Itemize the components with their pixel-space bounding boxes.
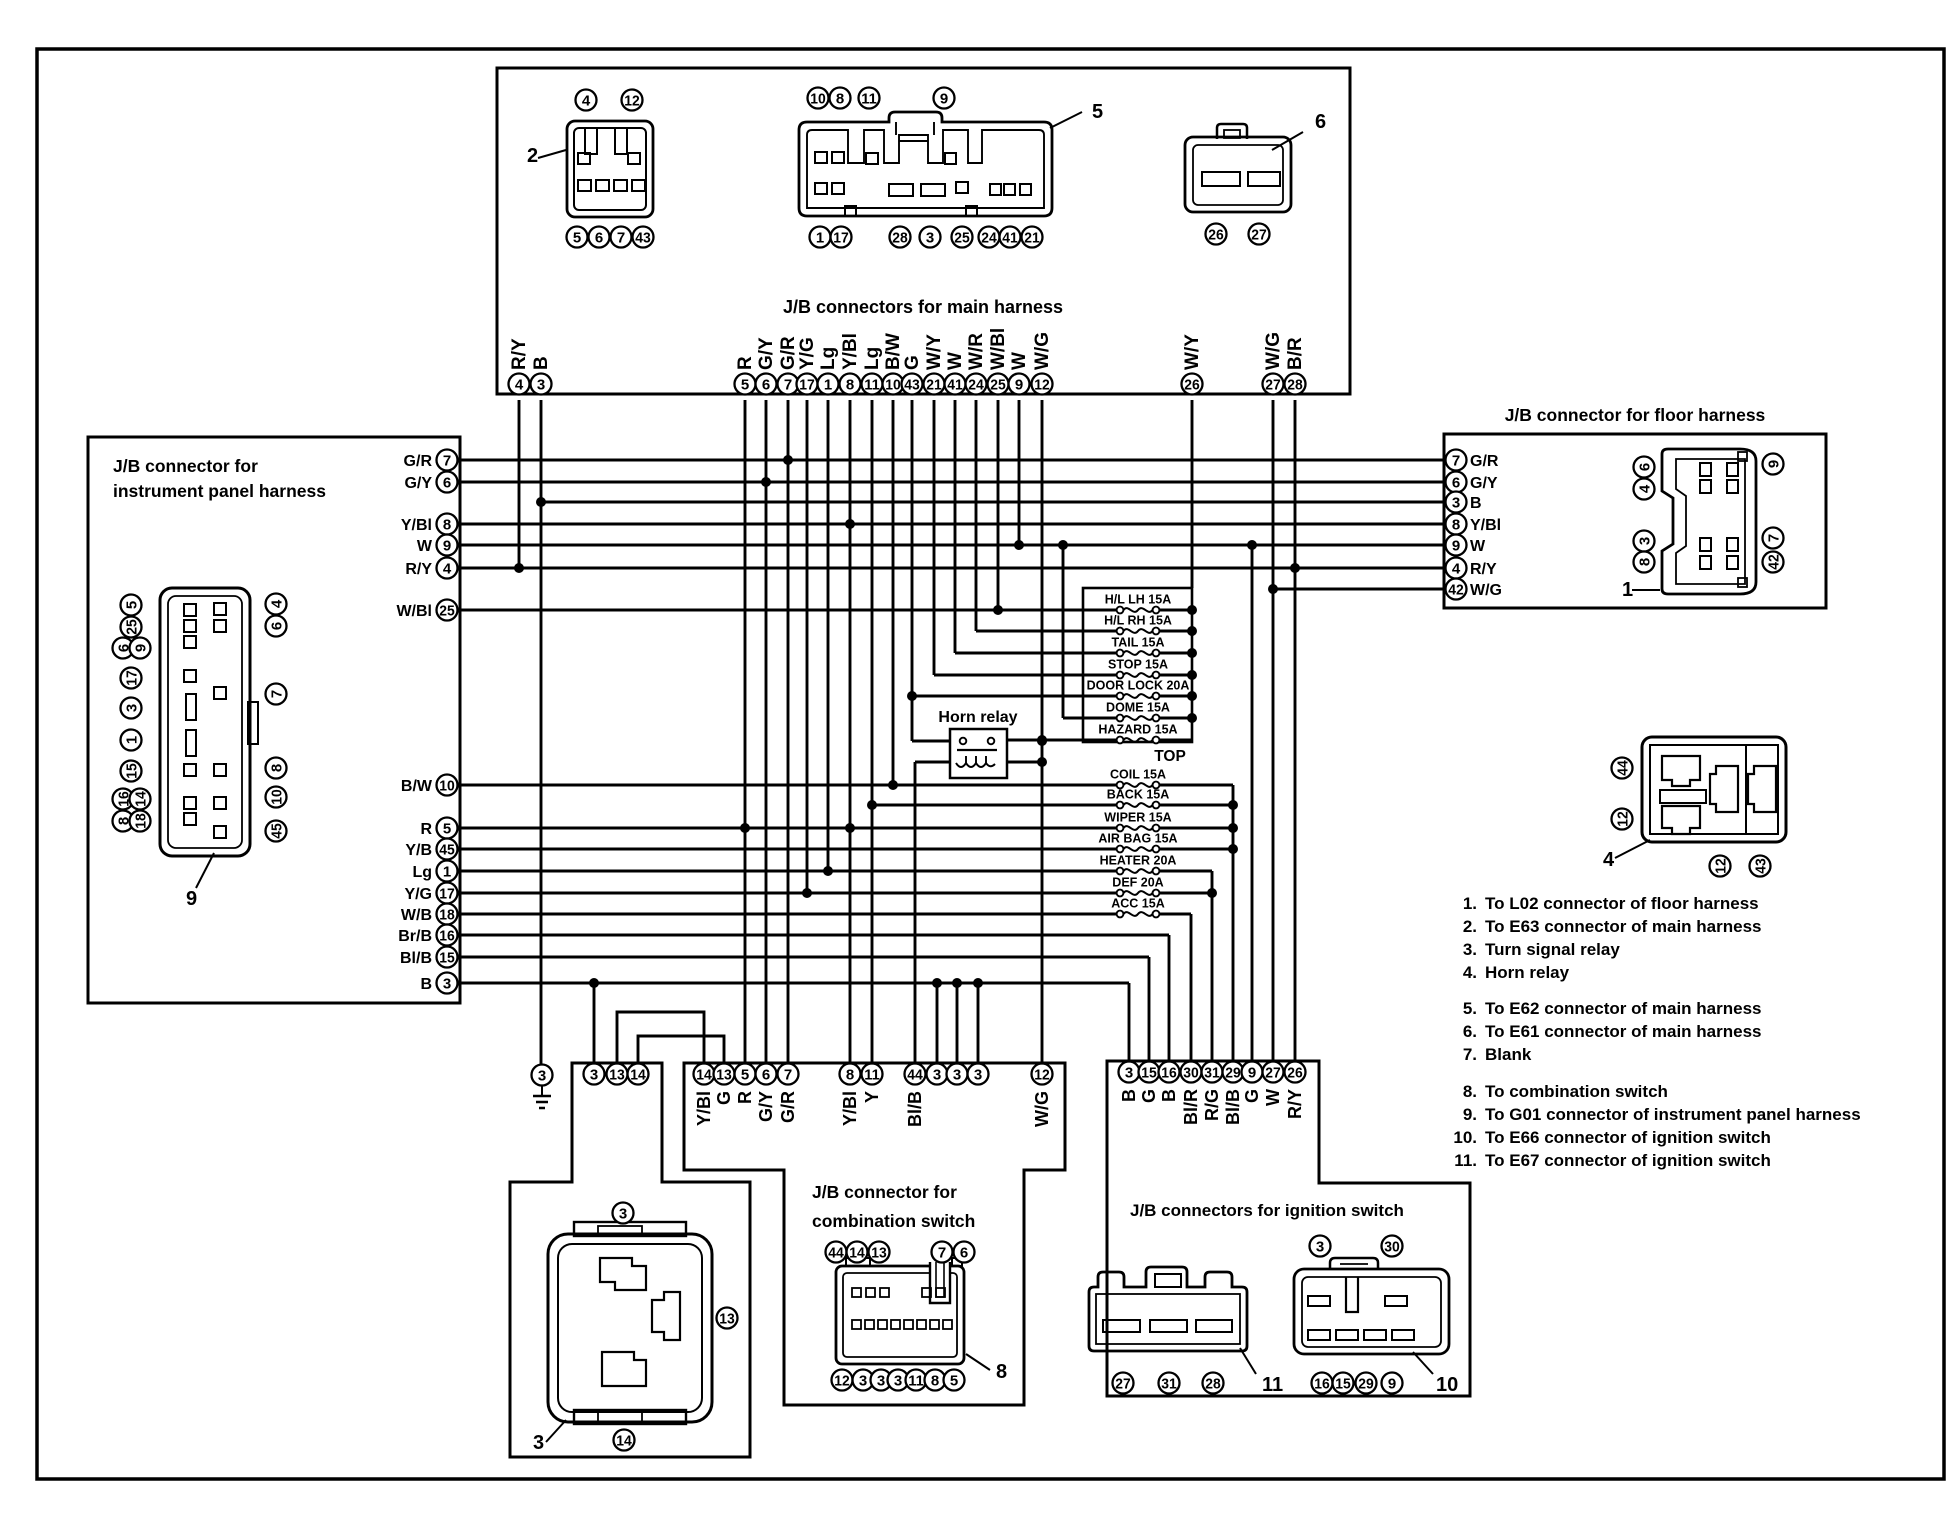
svg-text:ACC 15A: ACC 15A [1111,897,1165,911]
svg-text:6: 6 [762,376,770,393]
svg-text:B/W: B/W [401,778,433,795]
svg-text:G/R: G/R [778,1091,798,1123]
svg-text:W: W [1009,352,1030,370]
svg-text:10: 10 [810,90,826,107]
svg-text:9: 9 [1765,460,1782,468]
svg-text:3: 3 [1452,494,1460,511]
svg-text:7: 7 [1452,452,1460,469]
svg-text:8: 8 [268,764,285,772]
svg-text:15: 15 [123,763,140,779]
svg-text:5: 5 [123,601,140,609]
svg-text:W: W [945,352,966,370]
svg-text:9: 9 [940,90,948,107]
svg-text:11: 11 [908,1372,924,1389]
svg-text:J/B connector for: J/B connector for [812,1182,957,1202]
svg-text:Br/B: Br/B [398,928,432,945]
svg-text:To E67 connector of ignition s: To E67 connector of ignition switch [1485,1151,1771,1170]
svg-text:Y/Bl: Y/Bl [840,1091,860,1126]
svg-text:24: 24 [981,229,997,246]
svg-text:5: 5 [443,820,451,837]
svg-text:11.: 11. [1454,1151,1477,1170]
svg-text:3: 3 [1125,1064,1133,1081]
svg-text:TAIL 15A: TAIL 15A [1111,636,1164,650]
svg-text:G: G [1242,1089,1262,1103]
svg-text:3: 3 [123,704,140,712]
svg-text:42: 42 [1765,554,1782,570]
svg-text:G/R: G/R [1470,453,1499,470]
svg-text:HEATER 20A: HEATER 20A [1100,854,1177,868]
svg-text:12: 12 [1614,811,1631,827]
svg-text:G: G [902,355,923,370]
svg-text:7: 7 [784,376,792,393]
svg-text:44: 44 [1614,760,1631,776]
svg-text:14: 14 [696,1066,712,1083]
svg-text:14: 14 [132,791,149,807]
svg-text:15: 15 [1141,1064,1157,1081]
svg-text:12: 12 [834,1372,850,1389]
svg-text:B/W: B/W [883,333,904,370]
svg-text:W/Bl: W/Bl [988,328,1009,370]
svg-text:H/L LH 15A: H/L LH 15A [1105,593,1171,607]
svg-text:14: 14 [630,1066,646,1083]
svg-text:G/Y: G/Y [404,475,432,492]
svg-text:WIPER 15A: WIPER 15A [1104,811,1171,825]
svg-text:Bl/B: Bl/B [905,1091,925,1127]
svg-text:Y/Bl: Y/Bl [694,1091,714,1126]
svg-text:12: 12 [1034,376,1050,393]
svg-text:9: 9 [1248,1064,1256,1081]
svg-text:DOME 15A: DOME 15A [1106,701,1170,715]
svg-text:R/Y: R/Y [1470,561,1497,578]
svg-text:1: 1 [443,863,451,880]
svg-text:B: B [420,976,432,993]
svg-text:6: 6 [268,622,285,630]
svg-text:17: 17 [833,229,849,246]
svg-text:4: 4 [268,599,285,608]
svg-text:Lg: Lg [818,347,839,370]
svg-text:G/R: G/R [778,336,799,370]
svg-text:16: 16 [1314,1375,1330,1392]
svg-text:3: 3 [1636,537,1653,545]
svg-text:7: 7 [617,229,625,246]
svg-text:21: 21 [1024,229,1040,246]
svg-text:W/G: W/G [1263,332,1284,370]
svg-text:27: 27 [1265,1064,1281,1081]
svg-text:13: 13 [719,1310,735,1327]
svg-text:9: 9 [1015,376,1023,393]
svg-text:G/Y: G/Y [756,337,777,370]
svg-text:25: 25 [439,602,455,619]
svg-text:3: 3 [533,1432,544,1454]
svg-text:25: 25 [954,229,970,246]
svg-text:8: 8 [931,1372,939,1389]
svg-text:TOP: TOP [1154,748,1186,765]
svg-text:Y/Bl: Y/Bl [840,333,861,370]
svg-text:W/Y: W/Y [1182,334,1203,370]
svg-text:1: 1 [123,736,140,744]
svg-text:Bl/R: Bl/R [1181,1089,1201,1125]
svg-text:combination switch: combination switch [812,1211,975,1231]
svg-text:Turn signal relay: Turn signal relay [1485,940,1620,959]
svg-text:43: 43 [635,229,651,246]
svg-text:3: 3 [933,1066,941,1083]
svg-text:4: 4 [582,92,591,109]
svg-text:8: 8 [846,1066,854,1083]
svg-text:10.: 10. [1453,1128,1477,1147]
svg-text:13: 13 [716,1066,732,1083]
svg-text:27: 27 [1265,376,1281,393]
svg-text:10: 10 [268,789,285,805]
svg-text:Horn relay: Horn relay [938,709,1017,726]
svg-text:26: 26 [1208,226,1224,243]
svg-text:29: 29 [1358,1375,1374,1392]
svg-text:6.: 6. [1463,1022,1477,1041]
svg-text:41: 41 [1002,229,1018,246]
svg-text:1.: 1. [1463,894,1477,913]
svg-text:B: B [1119,1089,1139,1102]
svg-text:6: 6 [1452,474,1460,491]
svg-text:B: B [531,356,552,370]
svg-text:H/L RH 15A: H/L RH 15A [1104,614,1172,628]
svg-text:J/B connectors for ignition sw: J/B connectors for ignition switch [1130,1201,1404,1220]
svg-text:15: 15 [1335,1375,1351,1392]
svg-text:16: 16 [1161,1064,1177,1081]
svg-text:To L02 connector of floor harn: To L02 connector of floor harness [1485,894,1759,913]
svg-text:R/G: R/G [1202,1089,1222,1121]
svg-text:B/R: B/R [1285,337,1306,370]
svg-text:7: 7 [268,690,285,698]
svg-text:43: 43 [904,376,920,393]
svg-text:28: 28 [1205,1375,1221,1392]
svg-text:18: 18 [132,813,149,829]
svg-text:DOOR LOCK 20A: DOOR LOCK 20A [1087,679,1190,693]
svg-text:W/G: W/G [1032,1091,1052,1127]
svg-text:5: 5 [1092,101,1103,123]
svg-text:R: R [420,821,432,838]
svg-text:25: 25 [990,376,1006,393]
svg-text:1: 1 [816,229,824,246]
svg-text:8: 8 [1452,516,1460,533]
svg-text:45: 45 [439,841,455,858]
svg-text:To E66 connector of ignition s: To E66 connector of ignition switch [1485,1128,1771,1147]
svg-text:Y/G: Y/G [797,337,818,370]
svg-text:5: 5 [573,229,581,246]
svg-text:44: 44 [828,1244,844,1261]
svg-text:3: 3 [619,1205,627,1222]
svg-text:J/B connector for: J/B connector for [113,456,258,476]
svg-text:3: 3 [877,1372,885,1389]
svg-text:9: 9 [186,888,197,910]
svg-text:5.: 5. [1463,999,1477,1018]
svg-text:43: 43 [1752,858,1769,874]
svg-text:8: 8 [1636,558,1653,566]
svg-text:Horn relay: Horn relay [1485,963,1570,982]
svg-text:7: 7 [938,1244,946,1261]
svg-text:31: 31 [1161,1375,1177,1392]
svg-text:16: 16 [439,927,455,944]
svg-text:9: 9 [132,644,149,652]
svg-text:12: 12 [1034,1066,1050,1083]
svg-text:11: 11 [864,1066,880,1083]
svg-text:42: 42 [1448,581,1464,598]
svg-text:instrument panel harness: instrument panel harness [113,481,326,501]
svg-text:3: 3 [443,975,451,992]
svg-text:25: 25 [123,619,140,635]
svg-text:9: 9 [1452,537,1460,554]
svg-text:6: 6 [1636,463,1653,471]
svg-text:W/Bl: W/Bl [396,603,432,620]
svg-text:7: 7 [784,1066,792,1083]
svg-text:Bl/B: Bl/B [1223,1089,1243,1125]
svg-text:4: 4 [1603,849,1615,871]
svg-text:W/G: W/G [1470,582,1502,599]
svg-text:7: 7 [1765,534,1782,542]
svg-text:W/B: W/B [401,907,432,924]
svg-text:G/R: G/R [404,453,433,470]
svg-text:1: 1 [824,376,832,393]
svg-text:COIL 15A: COIL 15A [1110,768,1166,782]
svg-text:6: 6 [960,1244,968,1261]
svg-text:6: 6 [1315,111,1326,133]
svg-text:17: 17 [439,885,455,902]
svg-text:12: 12 [624,92,640,109]
svg-text:41: 41 [947,376,963,393]
svg-text:9.: 9. [1463,1105,1477,1124]
svg-text:J/B connector for floor harnes: J/B connector for floor harness [1505,405,1766,425]
svg-text:To G01 connector of instrument: To G01 connector of instrument panel har… [1485,1105,1861,1124]
svg-text:14: 14 [849,1244,865,1261]
svg-text:Bl/B: Bl/B [400,950,432,967]
svg-text:R/Y: R/Y [1285,1089,1305,1119]
svg-text:31: 31 [1204,1064,1220,1081]
svg-text:B: B [1159,1089,1179,1102]
svg-text:13: 13 [871,1244,887,1261]
svg-text:12: 12 [1712,858,1729,874]
svg-text:27: 27 [1251,226,1267,243]
svg-text:17: 17 [799,376,815,393]
svg-text:29: 29 [1225,1064,1241,1081]
svg-text:3.: 3. [1463,940,1477,959]
svg-text:STOP 15A: STOP 15A [1108,658,1168,672]
svg-text:W: W [1470,538,1486,555]
svg-text:6: 6 [443,474,451,491]
svg-text:2.: 2. [1463,917,1477,936]
svg-text:3: 3 [1316,1238,1324,1255]
svg-text:11: 11 [864,376,880,393]
svg-text:8: 8 [996,1361,1007,1383]
svg-text:4: 4 [443,560,452,577]
svg-text:11: 11 [861,90,877,107]
svg-text:R: R [735,1091,755,1104]
svg-text:B: B [1470,495,1482,512]
svg-text:6: 6 [762,1066,770,1083]
svg-text:HAZARD 15A: HAZARD 15A [1098,723,1177,737]
svg-text:Y/B: Y/B [405,842,432,859]
svg-text:17: 17 [123,670,140,686]
svg-text:28: 28 [1287,376,1303,393]
svg-text:To E62 connector of main harne: To E62 connector of main harness [1485,999,1761,1018]
svg-text:Y/Bl: Y/Bl [401,517,432,534]
svg-text:3: 3 [926,229,934,246]
svg-text:To E61 connector of main harne: To E61 connector of main harness [1485,1022,1761,1041]
svg-text:30: 30 [1183,1064,1199,1081]
svg-text:15: 15 [439,949,455,966]
svg-text:G/Y: G/Y [756,1091,776,1122]
svg-text:8: 8 [846,376,854,393]
svg-text:Y/G: Y/G [404,886,432,903]
svg-text:8: 8 [443,516,451,533]
svg-text:W/R: W/R [966,333,987,370]
svg-text:3: 3 [859,1372,867,1389]
svg-text:W: W [1263,1089,1283,1106]
svg-text:7.: 7. [1463,1045,1477,1064]
svg-text:8: 8 [836,90,844,107]
svg-text:W/G: W/G [1032,332,1053,370]
svg-text:R/Y: R/Y [509,338,530,370]
svg-text:2: 2 [527,145,538,167]
svg-text:G: G [1139,1089,1159,1103]
svg-text:3: 3 [537,376,545,393]
svg-text:28: 28 [892,229,908,246]
svg-text:10: 10 [439,777,455,794]
svg-text:11: 11 [1262,1374,1283,1396]
svg-text:14: 14 [616,1432,632,1449]
svg-text:45: 45 [268,823,285,839]
svg-text:AIR BAG 15A: AIR BAG 15A [1098,832,1177,846]
svg-text:Lg: Lg [412,864,432,881]
svg-text:3: 3 [953,1066,961,1083]
svg-text:44: 44 [907,1066,923,1083]
svg-text:4: 4 [1452,560,1461,577]
svg-text:Y: Y [862,1091,882,1103]
svg-text:DEF 20A: DEF 20A [1112,876,1163,890]
svg-text:BACK 15A: BACK 15A [1107,788,1170,802]
svg-text:8.: 8. [1463,1082,1477,1101]
svg-text:6: 6 [595,229,603,246]
svg-text:4: 4 [515,376,524,393]
svg-text:W/Y: W/Y [924,334,945,370]
svg-text:24: 24 [968,376,984,393]
svg-text:26: 26 [1184,376,1200,393]
svg-text:5: 5 [741,1066,749,1083]
svg-text:27: 27 [1115,1375,1131,1392]
svg-text:G: G [714,1091,734,1105]
svg-text:9: 9 [443,537,451,554]
svg-text:3: 3 [590,1066,598,1083]
svg-text:1: 1 [1622,579,1633,601]
svg-text:18: 18 [439,906,455,923]
svg-text:30: 30 [1384,1238,1400,1255]
svg-text:26: 26 [1287,1064,1303,1081]
svg-text:To E63 connector of main harne: To E63 connector of main harness [1485,917,1761,936]
svg-text:4.: 4. [1463,963,1477,982]
svg-text:9: 9 [1388,1375,1396,1392]
svg-text:Lg: Lg [862,347,883,370]
svg-text:4: 4 [1636,484,1653,493]
svg-text:G/Y: G/Y [1470,475,1498,492]
svg-text:21: 21 [926,376,942,393]
svg-text:13: 13 [609,1066,625,1083]
svg-text:R: R [735,356,756,370]
svg-text:J/B connectors for main harnes: J/B connectors for main harness [783,297,1063,317]
svg-text:Y/Bl: Y/Bl [1470,517,1501,534]
svg-text:R/Y: R/Y [405,561,432,578]
svg-text:To combination switch: To combination switch [1485,1082,1668,1101]
svg-text:3: 3 [538,1067,546,1084]
svg-text:5: 5 [950,1372,958,1389]
svg-text:10: 10 [1436,1374,1458,1396]
svg-text:3: 3 [974,1066,982,1083]
svg-text:7: 7 [443,452,451,469]
svg-text:10: 10 [885,376,901,393]
svg-text:5: 5 [741,376,749,393]
svg-text:Blank: Blank [1485,1045,1532,1064]
svg-text:W: W [417,538,433,555]
svg-text:3: 3 [894,1372,902,1389]
